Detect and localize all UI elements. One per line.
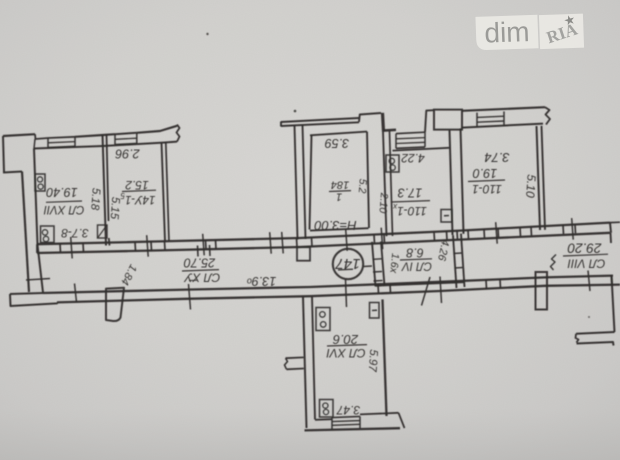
window W-c room 17.3: [395, 134, 397, 149]
outer wall top right section: [462, 107, 545, 111]
apartment number circle 147: [333, 249, 363, 279]
jambs on corridor top wall: [59, 244, 62, 253]
outer wall end cap curl: [177, 125, 180, 142]
corridor top wall left cap: [36, 244, 38, 253]
svg-text:17.3: 17.3: [398, 186, 422, 200]
svg-text:14У-15: 14У-15: [120, 191, 155, 205]
outer top wall between windows: [75, 134, 115, 137]
corridor top wall end cap right: [610, 223, 611, 233]
corridor bottom wall right cap: [611, 276, 614, 285]
fraction bar room 19.0: [468, 180, 505, 182]
room XVI balcony slant cap: [399, 413, 405, 428]
svg-text:5.18: 5.18: [88, 187, 102, 211]
paper speck 3: [588, 316, 590, 318]
svg-text:5.15: 5.15: [108, 196, 122, 220]
room XVI wall cut stub: [286, 356, 304, 359]
svg-text:184: 184: [331, 179, 349, 191]
vent shaft box room 17.3: [386, 155, 399, 172]
jambs on corridor bottom wall: [377, 284, 380, 293]
underline in circle: [338, 268, 353, 271]
svg-text:2.96: 2.96: [115, 147, 140, 161]
horizontal tick on left wall: [26, 279, 50, 281]
svg-text:5.2: 5.2: [356, 178, 369, 194]
dimension ticks on corridor top wall: [71, 237, 73, 259]
thin line exiting right edge: [610, 221, 620, 223]
small underline XV: [189, 279, 197, 281]
door jamb box on wall x103: [98, 225, 108, 238]
svg-text:19.0: 19.0: [473, 166, 497, 180]
long wall 5.10 right side: [537, 126, 541, 230]
svg-text:5.10: 5.10: [523, 174, 539, 199]
diagonal tick near room VI label: [422, 277, 431, 306]
outer wall step above room 184: [359, 113, 381, 122]
room XVI window strip bottom wall: [331, 418, 333, 430]
outer wall jog left: [3, 172, 22, 173]
leader from circle down: [346, 279, 347, 307]
corridor bottom wall upper line: [43, 276, 613, 293]
chimney block between rooms: [434, 110, 462, 130]
outer wall top-left segment: [3, 136, 4, 172]
inner top wall line left block: [34, 142, 177, 149]
svg-text:13.9о: 13.9о: [247, 274, 276, 288]
door jambs below wall near room 15.2: [197, 246, 200, 257]
interior wall right of room 15.2: [162, 143, 166, 242]
svg-text:СЛ ХУ: СЛ ХУ: [183, 270, 220, 284]
room XVI balcony band bottom: [360, 413, 399, 415]
svg-text:29.20: 29.20: [567, 240, 602, 255]
svg-text:Н=3.00: Н=3.00: [314, 218, 357, 233]
svg-text:2.10: 2.10: [377, 191, 390, 213]
thick pier at x382: [383, 113, 384, 132]
room VI bottom edge: [376, 282, 465, 286]
fraction bar room XVII: [46, 201, 82, 202]
inner line top right wall: [462, 124, 543, 128]
fraction bar corridor VIII: [563, 254, 608, 256]
svg-text:СЛ XVI: СЛ XVI: [326, 346, 366, 360]
svg-text:dim: dim: [484, 16, 530, 49]
svg-text:3.47: 3.47: [335, 403, 360, 417]
wall between rooms 17.3 and 19.0: [450, 130, 453, 235]
leader from circle right: [363, 265, 372, 268]
louver window W-d room 19.0: [476, 113, 478, 127]
paper bottom shading: [0, 408, 620, 460]
svg-text:СЛ XVII: СЛ XVII: [43, 203, 85, 215]
room 184 box outline: [310, 135, 312, 230]
room XVI bottom outer edge: [305, 428, 401, 430]
right wall below entrance opening: [612, 276, 615, 332]
pier stub below corridor top wall at x300: [297, 247, 310, 261]
vent shaft box room XVI lower: [320, 400, 334, 418]
svg-text:15.2: 15.2: [125, 178, 149, 192]
fraction bar room 17.3: [392, 201, 430, 202]
fraction bar 184: [329, 190, 351, 193]
svg-text:19.40: 19.40: [46, 185, 77, 199]
inner face of left outer wall: [34, 149, 43, 293]
entrance right wall upper cap: [610, 233, 613, 243]
paper speck 2: [206, 33, 208, 35]
svg-text:3.59: 3.59: [325, 136, 349, 150]
dimension ticks on corridor bottom wall: [75, 284, 77, 303]
upper T wall horizontal bar: [281, 118, 359, 122]
svg-text:3.7-8: 3.7-8: [61, 226, 89, 240]
svg-text:110-1: 110-1: [472, 182, 502, 196]
window W-b outer top wall: [114, 134, 116, 144]
corridor bottom wall left stub cap and bottom: [10, 294, 57, 306]
outer wall top edge left of step: [3, 134, 35, 136]
vent shaft box room XVII lower: [41, 226, 55, 243]
svg-text:1.6х: 1.6х: [387, 253, 401, 275]
left wall of room VI double with rungs: [372, 242, 376, 287]
fraction bar room XVI: [327, 345, 367, 346]
fraction bar room 15.2: [122, 190, 156, 191]
svg-text:6.8: 6.8: [406, 246, 423, 260]
corridor top wall lower line: [37, 233, 610, 253]
door rungs in wall VI-VIII: [454, 252, 462, 255]
svg-text:1: 1: [336, 191, 342, 203]
vent shaft box room XVI upper: [316, 308, 330, 331]
svg-text:110-1х: 110-1х: [392, 202, 427, 218]
room XVI left wall double: [303, 297, 307, 428]
paper speck 1: [294, 110, 297, 113]
left wall of room 17.3 double: [383, 132, 387, 237]
right wall hook step: [576, 332, 615, 334]
outer wall left vertical: [22, 172, 29, 293]
corridor bottom wall lower line: [57, 285, 620, 303]
room 17.3 top inner edge: [393, 148, 450, 151]
window W-a outer top wall: [47, 138, 49, 148]
svg-text:3.74: 3.74: [484, 150, 509, 165]
radiator box room 17.3: [441, 210, 452, 223]
leader squiggle corridor VIII: [551, 255, 557, 271]
fraction bar room VI: [400, 259, 432, 260]
svg-text:25.70: 25.70: [184, 256, 216, 270]
svg-text:5.97: 5.97: [366, 349, 380, 373]
lintel over window of room 17.3: [384, 129, 397, 132]
interior wall between rooms XVII and 15.2: [103, 135, 107, 246]
room XVI bottom inner edge left: [315, 418, 332, 421]
radiator box room XVI: [370, 303, 380, 319]
tall pier right part corridor bottom wall: [536, 272, 548, 310]
corridor top wall upper line: [37, 223, 610, 245]
upper T wall vertical double: [295, 126, 298, 240]
inner step at x35: [34, 139, 35, 149]
wall between room VI and corridor VIII: [453, 235, 457, 288]
watermark dim panel: [475, 11, 584, 51]
room XVI right wall: [383, 299, 387, 416]
svg-text:СЛ VIII: СЛ VIII: [567, 256, 606, 270]
corridor bottom wall left stub top: [10, 293, 43, 294]
watermark ria panel: [539, 14, 584, 50]
fraction bar corridor XV: [182, 270, 219, 271]
outer wall step at x35: [35, 134, 48, 139]
svg-text:4.22: 4.22: [401, 151, 425, 165]
pier stub bar below corridor bottom wall: [106, 288, 124, 321]
vent shaft box room XVII upper: [35, 174, 45, 191]
outer top wall right part: [137, 126, 177, 133]
outer wall step right of window W-c: [425, 110, 434, 132]
outer wall right end cap curl: [545, 107, 550, 124]
svg-text:СЛ IV: СЛ IV: [401, 259, 432, 271]
